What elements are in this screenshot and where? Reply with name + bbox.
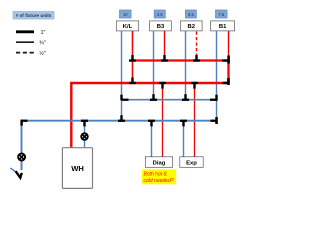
junction tee Exp cold drop	[180, 120, 187, 127]
hot pipe B2 vertical dashed half-inch	[196, 32, 198, 61]
cold pipe B3 vertical	[153, 31, 155, 100]
cold drop to water heater	[84, 121, 86, 148]
legend header box "# of fixture units"	[13, 12, 54, 20]
cold pipe B2 vertical	[185, 31, 187, 100]
legend line 3/4 inch	[16, 41, 46, 47]
svg-text:K/L: K/L	[123, 24, 133, 30]
fixture-unit value box 7.5 above B1	[216, 10, 228, 18]
fixture-unit value box 10 above K/L	[120, 10, 132, 18]
hot pipe B1 riser segment	[227, 61, 229, 84]
Diag label box	[145, 157, 172, 168]
yellow note Both hot and cold needed	[142, 169, 177, 184]
water heater WH box	[62, 148, 92, 189]
legend line 1 inch	[16, 30, 46, 36]
fixture label box K/L	[116, 21, 138, 31]
Exp label box	[180, 157, 203, 168]
fixture label box B1	[211, 21, 235, 31]
cold drop to Exp	[183, 121, 185, 157]
junction elbow cold main right corner	[211, 117, 218, 124]
junction elbow cold main left corner	[20, 120, 27, 126]
hot drop to Diag	[162, 83, 164, 157]
svg-text:B2: B2	[188, 24, 196, 30]
cold drop to Diag	[151, 121, 153, 157]
svg-text:WH: WH	[71, 164, 84, 173]
valve on cold supply	[18, 154, 25, 161]
junction tee B1 cold at cold branch	[210, 95, 218, 101]
cold pipe B1 vertical	[216, 31, 218, 121]
junction tee Diag hot drop	[159, 82, 166, 89]
valve on water heater cold inlet	[81, 133, 88, 140]
fixture-unit value box 3.5 above B3	[154, 10, 165, 18]
fixture label box B3	[150, 21, 172, 31]
junction tee B3 hot at upper branch	[161, 55, 168, 62]
svg-text:¾″: ¾″	[39, 41, 46, 47]
cold supply diagonal arrow	[10, 168, 21, 178]
svg-text:Exp: Exp	[186, 161, 197, 167]
svg-text:cold needed?: cold needed?	[144, 178, 174, 184]
svg-text:B1: B1	[219, 24, 227, 30]
hot pipe K/L vertical	[132, 31, 134, 83]
svg-text:Both hot &: Both hot &	[144, 172, 168, 178]
svg-text:# of fixture units: # of fixture units	[16, 13, 52, 18]
svg-text:B3: B3	[157, 24, 165, 30]
hot main from water heater	[71, 83, 228, 148]
junction tee Exp hot drop	[191, 82, 198, 89]
junction tee B1 hot at upper branch	[222, 56, 230, 64]
junction tee B2 cold at cold branch	[182, 94, 189, 101]
hot pipe B1 vertical	[228, 31, 230, 61]
hot pipe B3 vertical	[164, 31, 166, 61]
cold main horizontal with supply riser	[22, 121, 217, 170]
junction tee B3 cold at cold branch	[150, 94, 157, 101]
svg-text:1″: 1″	[41, 30, 46, 36]
cold branch horizontal	[121, 99, 217, 101]
svg-text:½″: ½″	[39, 50, 46, 57]
svg-text:10: 10	[123, 12, 128, 17]
hot branch upper horizontal	[133, 59, 229, 61]
junction elbow hot main right corner	[223, 78, 230, 85]
cold pipe K/L vertical	[121, 31, 123, 121]
legend line 1/2 inch dashed	[16, 50, 46, 57]
svg-text:7.5: 7.5	[218, 12, 224, 17]
junction tee water heater cold drop	[81, 120, 88, 127]
svg-text:5.5: 5.5	[188, 12, 194, 17]
junction tee K/L cold at cold branch	[120, 95, 128, 101]
svg-text:3.5: 3.5	[157, 12, 163, 17]
fixture-unit value box 5.5 above B2	[185, 10, 196, 18]
junction tee K/L cold at cold main	[118, 115, 125, 122]
junction tee Diag cold drop	[148, 120, 155, 127]
junction tee K/L hot at hot main	[129, 78, 136, 85]
svg-text:Diag: Diag	[153, 161, 166, 167]
junction tee B2 hot at upper branch	[193, 55, 200, 62]
fixture label box B2	[181, 21, 203, 31]
hot drop to Exp	[194, 83, 196, 157]
junction tee K/L hot at upper branch	[129, 55, 136, 62]
